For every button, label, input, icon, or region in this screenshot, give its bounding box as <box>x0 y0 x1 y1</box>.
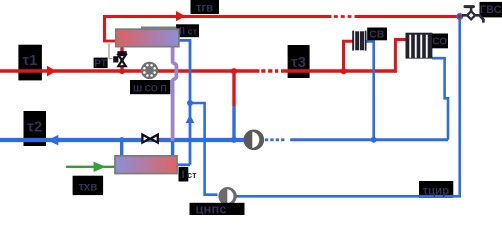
wire red branch to CB <box>344 41 353 72</box>
wire blue bypass tap left <box>120 140 123 157</box>
wire red supply top line <box>105 17 332 43</box>
arrow on blue return main <box>48 135 59 146</box>
junction dot GVS tap node <box>456 13 463 20</box>
svg-text:τ2: τ2 <box>27 119 42 136</box>
node tau1 label box <box>18 45 42 81</box>
wire blue return dashed after pump <box>265 138 285 141</box>
pump hot water circulation <box>218 187 236 205</box>
wire blue stage II cold feed riser <box>179 40 191 164</box>
wire red valve stem <box>120 47 123 71</box>
arrow on top supply line <box>176 11 186 21</box>
wire red stage II inlet stub <box>103 40 116 43</box>
RT valve actuator <box>113 56 118 62</box>
node tau-hv label box <box>73 176 104 195</box>
wire red riser to CO <box>395 40 406 73</box>
label box RT <box>94 58 108 69</box>
pump heating circuit <box>244 130 265 151</box>
junction dot bypass left <box>119 137 124 142</box>
svg-text:II ст: II ст <box>179 26 198 38</box>
wire red main tau1 <box>0 69 260 73</box>
wire blue CB return riser <box>366 41 373 139</box>
arrow on cold water inlet <box>94 162 107 172</box>
svg-text:τхв: τхв <box>79 181 98 193</box>
heat exchanger stage I <box>115 156 177 174</box>
wire blue mixing drop lower half <box>232 106 235 140</box>
wire blue bypass tap right <box>171 141 174 157</box>
svg-text:ГВС: ГВС <box>480 4 502 16</box>
label box I-stage <box>179 167 189 182</box>
label box Shsop <box>130 80 170 94</box>
wire red supply top to GVS node <box>355 15 460 18</box>
orifice washer Shsop <box>141 62 158 79</box>
heater CB ventilation coil <box>352 31 366 51</box>
wire blue return to CO riser <box>290 138 448 141</box>
junction dot CB return on blue main <box>371 137 377 143</box>
wire green cold water inlet <box>66 166 115 168</box>
capillary line to RT actuator <box>109 44 112 59</box>
svg-text:τ1: τ1 <box>22 52 37 69</box>
wire blue circulation link to pump <box>190 103 218 195</box>
node tau-gv label box <box>191 0 220 14</box>
wire blue CO return riser <box>432 58 448 140</box>
label box II-stage <box>176 24 199 37</box>
wire blue stage I outlet <box>177 163 190 166</box>
arrow on red main <box>47 66 57 77</box>
wire red supply top dashed <box>334 15 352 18</box>
junction dot CB branch on red main <box>341 68 347 74</box>
label box CB <box>367 28 387 41</box>
svg-text:СВ: СВ <box>369 28 385 40</box>
svg-text:τгв: τгв <box>196 2 213 14</box>
wire red mixing drop upper half <box>232 71 235 106</box>
svg-text:Ш СО П: Ш СО П <box>133 83 167 93</box>
label box CO <box>432 34 448 49</box>
wire purple stage II primary outlet with hop over red main <box>173 47 177 142</box>
label box pump cnps <box>190 203 245 215</box>
control valve RT on stage II inlet <box>117 51 126 54</box>
node tau-cir label box <box>419 181 453 198</box>
valve on bypass of blue main <box>142 135 149 143</box>
wire blue circulation line bottom <box>237 17 460 197</box>
radiator CO heating system <box>406 33 433 59</box>
svg-text:τцир: τцир <box>423 185 449 197</box>
wire blue return main tau2 <box>0 138 244 142</box>
junction dot valve stem on red main <box>119 68 125 74</box>
junction dot mixing on red main <box>231 68 237 74</box>
heat exchanger stage II top band <box>141 27 176 30</box>
svg-text:СО: СО <box>432 37 447 48</box>
junction dot mixing on blue main <box>231 137 237 143</box>
wire red main to CO branch <box>281 69 395 73</box>
heat exchanger stage II <box>116 29 179 46</box>
node GVS label box <box>480 2 502 18</box>
junction dot circulation mix <box>187 100 193 106</box>
arrow up on stage feed riser <box>186 115 195 123</box>
node tau3 label box <box>288 45 310 78</box>
node tau2 label box <box>24 111 47 146</box>
wire red main dashed break <box>261 69 278 72</box>
svg-text:РТ: РТ <box>94 58 107 69</box>
tap GVS faucet symbol <box>462 5 483 23</box>
svg-text:τ3: τ3 <box>291 54 306 71</box>
svg-text:цнпс: цнпс <box>196 202 227 216</box>
svg-text:I ст: I ст <box>182 169 198 181</box>
